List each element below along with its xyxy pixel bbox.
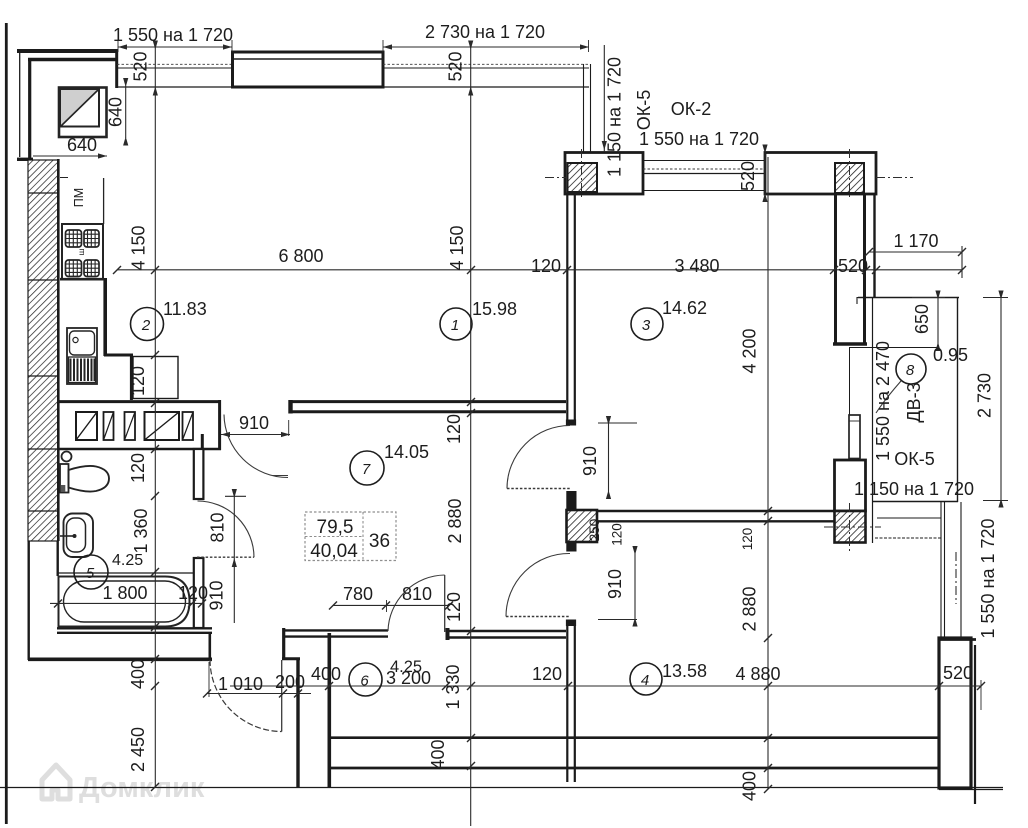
OK-2 left wall block xyxy=(565,153,643,195)
svg-text:4: 4 xyxy=(641,672,649,689)
DOORS xyxy=(197,381,901,732)
svg-text:200: 200 xyxy=(275,672,305,692)
vent duct 1 xyxy=(76,412,97,440)
svg-text:120: 120 xyxy=(128,366,148,396)
svg-text:6: 6 xyxy=(360,673,369,690)
stove burner 2 xyxy=(84,230,99,247)
svg-text:910: 910 xyxy=(239,413,269,433)
dim 640 vertical xyxy=(125,86,127,139)
svg-text:1 800: 1 800 xyxy=(102,583,147,603)
svg-text:520: 520 xyxy=(838,256,868,276)
dim door910 hall xyxy=(221,434,290,436)
vent block band top xyxy=(58,400,221,403)
balcony outer face thin xyxy=(872,297,874,543)
entry shaft east wall xyxy=(327,633,331,787)
svg-text:120: 120 xyxy=(178,583,208,603)
vent duct 2 xyxy=(104,412,114,440)
wall pier inner line xyxy=(233,58,382,60)
bottom-right wall column xyxy=(939,638,971,788)
svg-text:4.25: 4.25 xyxy=(112,552,143,569)
svg-text:810: 810 xyxy=(208,512,228,542)
east wall outer face xyxy=(873,194,875,297)
top wall interior sill line xyxy=(117,86,589,88)
entrance door leaf xyxy=(281,660,283,732)
wall top-left bottom step xyxy=(17,158,33,161)
title block divider vertical xyxy=(362,512,364,561)
balcony glazing bottom xyxy=(872,501,958,503)
stove outer box xyxy=(62,224,103,280)
svg-text:400: 400 xyxy=(311,664,341,684)
svg-text:650: 650 xyxy=(912,304,932,334)
bottom outer wall band upper xyxy=(329,736,939,739)
horizontal dim line y270 xyxy=(117,269,962,271)
balcony door frame line xyxy=(849,347,851,415)
vertical dim line x604 for 1150 window xyxy=(603,45,605,152)
vertical dim line x768 xyxy=(767,157,769,789)
ticks on x471 xyxy=(467,398,475,770)
svg-text:520: 520 xyxy=(131,51,151,81)
svg-text:910: 910 xyxy=(207,580,227,610)
door D1 room3 arc xyxy=(507,426,570,489)
svg-text:120: 120 xyxy=(532,664,562,684)
ticks entrance dim xyxy=(203,682,985,698)
svg-text:ДВ-3: ДВ-3 xyxy=(904,382,924,422)
svg-text:14.62: 14.62 xyxy=(662,298,707,318)
room6 north wall left segment xyxy=(284,629,388,631)
bathtub outer xyxy=(59,577,190,627)
vent duct box between kitchen and bath xyxy=(133,357,178,399)
right outer face below column xyxy=(974,645,976,804)
dim 910 door D2 xyxy=(634,553,636,620)
svg-text:120: 120 xyxy=(531,256,561,276)
kitchen sink drainer stripes xyxy=(71,359,95,382)
extension room6 dim xyxy=(386,600,388,612)
kitchen counter mark xyxy=(60,177,68,179)
svg-text:780: 780 xyxy=(343,584,373,604)
door D2 bottom post cap xyxy=(566,620,576,627)
svg-text:120: 120 xyxy=(444,414,464,444)
svg-text:1 550 на 1 720: 1 550 на 1 720 xyxy=(978,518,998,638)
svg-text:2 450: 2 450 xyxy=(128,727,148,772)
kitchen corner sink diagonal xyxy=(61,90,99,127)
wall room3-room4 divider double xyxy=(597,510,834,512)
door room6 leaf xyxy=(444,575,446,632)
svg-text:120: 120 xyxy=(610,523,625,546)
door D2 room4 arc xyxy=(506,553,570,616)
svg-text:120: 120 xyxy=(740,528,755,551)
wall top-left inner face xyxy=(28,58,118,61)
dim 910 door D1 xyxy=(608,423,610,492)
OK-2 right block hatched pier xyxy=(835,163,864,193)
center hatched pier xyxy=(567,510,598,542)
FIXTURES xyxy=(59,88,861,627)
svg-text:2: 2 xyxy=(141,317,151,334)
svg-text:40,04: 40,04 xyxy=(310,541,358,562)
lower balcony rails right side xyxy=(940,502,942,638)
door bathroom leaf xyxy=(197,556,254,558)
title block divider horizontal xyxy=(305,536,363,538)
door room6 arc xyxy=(388,575,445,631)
room6 wall left cap xyxy=(446,628,450,640)
entry wall west face xyxy=(282,628,285,660)
svg-text:ОК-5: ОК-5 xyxy=(894,449,935,469)
svg-text:15.98: 15.98 xyxy=(472,299,517,319)
balcony glazing top xyxy=(858,297,959,299)
svg-text:1 360: 1 360 xyxy=(131,508,151,553)
svg-text:ПМ: ПМ xyxy=(72,188,86,207)
room6 north wall right segment xyxy=(446,630,566,632)
svg-text:400: 400 xyxy=(740,771,760,801)
wall room1-room7 divider double xyxy=(289,400,566,403)
dim 650 balcony xyxy=(937,297,939,344)
kitchen sink unit outer xyxy=(67,328,97,384)
svg-text:13.58: 13.58 xyxy=(662,661,707,681)
corner jog after window W2 double thin xyxy=(583,64,585,154)
balcony door leaf inner tick xyxy=(849,420,860,422)
dim room6 780-810 xyxy=(333,604,449,606)
toilet tank shade xyxy=(61,485,66,492)
svg-text:520: 520 xyxy=(738,161,758,191)
bottom thin line full width xyxy=(0,787,1003,789)
svg-text:36: 36 xyxy=(369,531,390,552)
svg-text:ОК-5: ОК-5 xyxy=(634,90,654,131)
dim 640 horizontal xyxy=(33,155,107,157)
main vertical dim line x155 xyxy=(154,47,156,787)
TITLE BLOCK xyxy=(305,512,396,562)
svg-text:ш: ш xyxy=(76,248,86,255)
vent block right edge xyxy=(218,400,221,450)
dim 520 OK2 vertical xyxy=(764,148,766,198)
door room2-hall arc xyxy=(224,415,288,478)
wall pier between windows xyxy=(233,52,384,87)
bathroom south wall double xyxy=(57,627,212,629)
kitchen-bath wall step horizontal xyxy=(104,354,133,357)
dim bathtub 1800-120 xyxy=(50,602,204,604)
toilet bowl xyxy=(69,466,110,492)
toilet tank xyxy=(60,464,69,493)
svg-text:3: 3 xyxy=(642,317,651,334)
dim line 2730 window2 xyxy=(383,46,589,48)
svg-text:2 730: 2 730 xyxy=(975,373,995,418)
bathtub shelf line xyxy=(58,572,193,574)
east wall bottom cap xyxy=(833,342,867,345)
extension lines window dims xyxy=(117,40,119,52)
balcony door DV-3 leaf xyxy=(849,415,860,459)
bathtub inner xyxy=(64,581,186,622)
stove burner 3 xyxy=(66,260,82,277)
room numbers xyxy=(86,317,915,690)
wall top-left outer heavy line xyxy=(17,49,118,53)
svg-text:120: 120 xyxy=(444,592,464,622)
svg-text:1 550 на 1 720: 1 550 на 1 720 xyxy=(113,25,233,45)
wall top-left inner vertical xyxy=(28,58,31,159)
svg-text:910: 910 xyxy=(580,446,600,476)
kitchen corner sink gray triangle xyxy=(61,90,98,126)
window W2 glazing lines xyxy=(383,63,589,65)
kitchen counter edge vertical xyxy=(103,178,105,224)
svg-text:1 550 на 2 470: 1 550 на 2 470 xyxy=(873,341,893,461)
kitchen-bath wall step vertical xyxy=(130,355,133,400)
hatched wall division lines xyxy=(28,192,58,194)
svg-text:520: 520 xyxy=(446,51,466,81)
left page border double line xyxy=(5,23,8,824)
wall top-left outer thin vertical xyxy=(19,53,21,157)
title block box xyxy=(305,512,396,561)
svg-text:1 150 на 1 720: 1 150 на 1 720 xyxy=(854,479,974,499)
svg-text:1: 1 xyxy=(451,317,459,334)
bathroom east wall upper post xyxy=(194,449,204,499)
balcony lower pier hatch xyxy=(835,511,866,543)
door910 right post cap xyxy=(288,400,292,414)
svg-text:3 200: 3 200 xyxy=(386,668,431,688)
door D1 top post cap xyxy=(566,420,576,426)
svg-text:2 880: 2 880 xyxy=(445,498,465,543)
svg-text:1 010: 1 010 xyxy=(218,674,263,694)
svg-text:2 730 на 1 720: 2 730 на 1 720 xyxy=(425,22,545,42)
svg-text:0.95: 0.95 xyxy=(933,345,968,365)
520 arrows on x155 xyxy=(153,41,158,96)
OK-2 left block hatched pier xyxy=(568,163,598,192)
balcony corner bracket xyxy=(857,298,866,305)
hatched wall inner face xyxy=(57,159,60,541)
520 arrows on x471 xyxy=(468,41,473,96)
ticks on y270 xyxy=(113,266,966,274)
pier axis dash-dot xyxy=(824,503,881,551)
svg-text:79,5: 79,5 xyxy=(317,517,354,538)
center pier lower stub xyxy=(566,542,576,552)
wash sink inner xyxy=(67,518,86,552)
svg-text:5: 5 xyxy=(86,565,95,582)
balcony door sill line xyxy=(849,347,938,349)
ticks on x155 xyxy=(151,351,159,791)
WATERMARK xyxy=(42,765,205,804)
wash sink outer xyxy=(64,514,94,558)
extension for door910 xyxy=(288,420,290,436)
svg-text:ОК-2: ОК-2 xyxy=(671,99,712,119)
door bathroom arc xyxy=(198,501,255,557)
kitchen corner sink inner square xyxy=(61,89,100,127)
entrance door arc xyxy=(210,660,282,732)
leader from room8 circle to door xyxy=(876,381,901,413)
window W1 left jamb cap xyxy=(115,49,118,88)
vent block band bottom xyxy=(58,448,221,451)
horizontal dim line y693 entrance xyxy=(207,693,311,695)
stove bottom shelf xyxy=(60,278,104,281)
svg-text:250: 250 xyxy=(587,519,602,542)
wash sink tap xyxy=(60,535,74,537)
svg-text:120: 120 xyxy=(128,453,148,483)
INTERIOR xyxy=(57,194,834,782)
vent duct 5 xyxy=(183,412,194,440)
kitchen sink basin rounded xyxy=(70,331,95,355)
svg-text:640: 640 xyxy=(106,97,126,127)
dim 1170 xyxy=(869,251,962,253)
ticks on x768 xyxy=(764,507,772,793)
kitchen-bath wall vertical xyxy=(103,278,107,356)
svg-text:910: 910 xyxy=(605,569,625,599)
dim 810 bathroom door xyxy=(233,494,235,623)
svg-text:1 550 на 1 720: 1 550 на 1 720 xyxy=(639,129,759,149)
center pier upper stub xyxy=(566,491,576,510)
dim line 1550 window1 xyxy=(118,46,232,48)
kitchen sink drain circle xyxy=(73,337,78,342)
horizontal dim line y686 long xyxy=(230,685,981,687)
svg-text:11.83: 11.83 xyxy=(163,299,207,319)
room circle 1 xyxy=(74,308,926,697)
svg-text:7: 7 xyxy=(362,461,371,478)
entry jamb vertical xyxy=(209,633,212,659)
entry wall lower vertical xyxy=(296,659,299,787)
lower right horizontal rail lines xyxy=(876,501,941,503)
bathroom east wall lower post xyxy=(194,558,204,628)
svg-text:1 150 на 1 720: 1 150 на 1 720 xyxy=(605,57,625,177)
svg-text:1 330: 1 330 xyxy=(443,664,463,709)
svg-text:520: 520 xyxy=(943,663,973,683)
left hatched bearing wall xyxy=(28,160,58,541)
bathroom outer south wall xyxy=(28,657,212,661)
stove burner 4 xyxy=(84,260,99,277)
svg-text:640: 640 xyxy=(67,135,97,155)
stove top edge xyxy=(62,223,103,225)
vent duct 4 wide xyxy=(145,412,180,440)
svg-text:2 880: 2 880 xyxy=(740,586,760,631)
main vertical dim line x471 xyxy=(470,45,472,826)
entry wall step xyxy=(282,657,300,660)
svg-text:4 150: 4 150 xyxy=(129,225,149,270)
bottom outer wall band lower xyxy=(329,767,939,770)
svg-text:6 800: 6 800 xyxy=(278,246,323,266)
svg-text:3 480: 3 480 xyxy=(674,256,719,276)
svg-text:4 200: 4 200 xyxy=(740,328,760,373)
dim 2730 balcony xyxy=(1000,297,1002,501)
svg-text:400: 400 xyxy=(428,739,448,769)
east wall of room 3 double line xyxy=(834,194,837,344)
OK-2 right wall block xyxy=(765,153,876,195)
extension line entrance left xyxy=(208,662,210,697)
kitchen corner sink outer box xyxy=(59,88,107,138)
svg-text:1 170: 1 170 xyxy=(893,231,938,251)
OK-2 window lines xyxy=(643,160,765,162)
watermark house icon xyxy=(42,765,70,799)
bottom right short line xyxy=(939,789,1003,791)
axis dash-dot through left pier xyxy=(545,149,913,199)
balcony lower pier white xyxy=(835,460,866,511)
extension line at x981 xyxy=(980,680,982,710)
vent duct 3 xyxy=(125,412,136,440)
svg-text:400: 400 xyxy=(128,659,148,689)
stove burner 1 xyxy=(66,230,82,247)
balcony glazing right xyxy=(957,297,959,502)
window W1 glazing lines xyxy=(117,63,232,65)
svg-text:4 880: 4 880 xyxy=(735,664,780,684)
wall below hatch right face xyxy=(57,541,59,576)
svg-text:4 150: 4 150 xyxy=(447,225,467,270)
door D2 room4 leaf xyxy=(506,616,570,618)
rail dash-dot axis xyxy=(955,552,957,604)
column top cap extension xyxy=(939,638,976,641)
wall below hatch left face xyxy=(28,541,30,660)
kitchen sink drainer box xyxy=(69,357,96,383)
svg-text:14.05: 14.05 xyxy=(384,442,429,462)
svg-text:8: 8 xyxy=(906,362,915,379)
wall room1-room3 divider double xyxy=(566,194,568,420)
wall room7-room4 divider lower double xyxy=(566,620,568,782)
bathroom east wall jamb stub xyxy=(201,434,204,450)
toilet paper holder circle xyxy=(62,452,72,462)
svg-text:810: 810 xyxy=(402,584,432,604)
door D1 room3 leaf xyxy=(507,488,570,490)
